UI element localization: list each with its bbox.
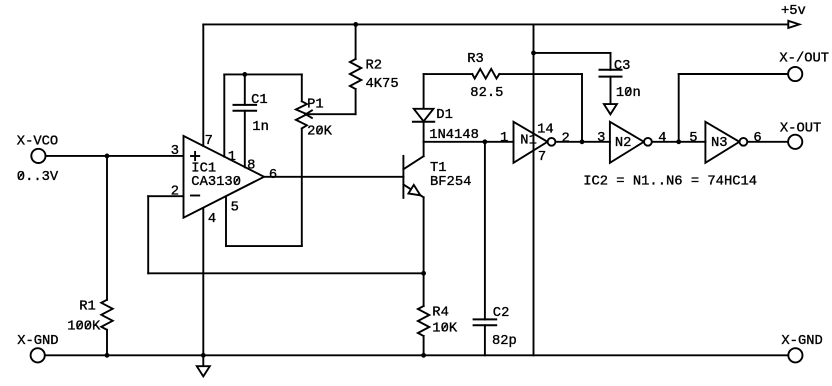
svg-text:C3: C3 xyxy=(614,59,631,74)
svg-text:3: 3 xyxy=(171,144,179,159)
svg-text:N3: N3 xyxy=(711,136,728,151)
svg-text:1N4148: 1N4148 xyxy=(429,128,479,143)
svg-text:R4: R4 xyxy=(432,305,449,320)
svg-text:C1: C1 xyxy=(251,93,268,108)
svg-text:R1: R1 xyxy=(79,300,96,315)
svg-text:4: 4 xyxy=(658,131,666,146)
svg-text:10K: 10K xyxy=(432,321,458,336)
svg-text:BF254: BF254 xyxy=(430,175,471,190)
svg-text:D1: D1 xyxy=(436,108,453,123)
svg-text:7: 7 xyxy=(538,150,546,165)
svg-text:P1: P1 xyxy=(307,97,324,112)
svg-text:N1: N1 xyxy=(520,133,537,148)
svg-text:5: 5 xyxy=(231,201,239,216)
svg-text:6: 6 xyxy=(269,168,277,183)
svg-text:CA3130: CA3130 xyxy=(191,175,241,190)
svg-text:4: 4 xyxy=(208,212,216,227)
svg-text:N2: N2 xyxy=(615,136,632,151)
svg-text:IC2 = N1..N6 = 74HC14: IC2 = N1..N6 = 74HC14 xyxy=(583,174,757,189)
svg-text:1n: 1n xyxy=(252,120,269,135)
svg-text:4K75: 4K75 xyxy=(366,77,399,92)
svg-text:2: 2 xyxy=(171,185,179,200)
svg-text:1: 1 xyxy=(228,150,236,165)
svg-text:+5v: +5v xyxy=(781,4,806,19)
svg-text:82.5: 82.5 xyxy=(470,86,503,101)
svg-text:X-OUT: X-OUT xyxy=(780,121,821,136)
svg-text:1: 1 xyxy=(500,131,508,146)
svg-text:82p: 82p xyxy=(492,334,517,349)
svg-text:2: 2 xyxy=(562,131,570,146)
svg-text:6: 6 xyxy=(753,131,761,146)
svg-text:20K: 20K xyxy=(307,125,333,140)
svg-text:X-VCO: X-VCO xyxy=(17,135,58,150)
svg-text:8: 8 xyxy=(247,158,255,173)
svg-text:R3: R3 xyxy=(467,52,484,67)
svg-text:X-GND: X-GND xyxy=(781,334,822,349)
svg-text:3: 3 xyxy=(597,131,605,146)
svg-text:5: 5 xyxy=(689,131,697,146)
svg-text:100K: 100K xyxy=(67,320,101,335)
svg-text:14: 14 xyxy=(537,122,554,137)
svg-text:10n: 10n xyxy=(616,86,641,101)
svg-text:X-GND: X-GND xyxy=(17,334,58,349)
svg-text:R2: R2 xyxy=(366,58,383,73)
svg-text:C2: C2 xyxy=(493,306,510,321)
svg-text:X-/OUT: X-/OUT xyxy=(779,51,829,67)
svg-text:7: 7 xyxy=(205,134,213,149)
